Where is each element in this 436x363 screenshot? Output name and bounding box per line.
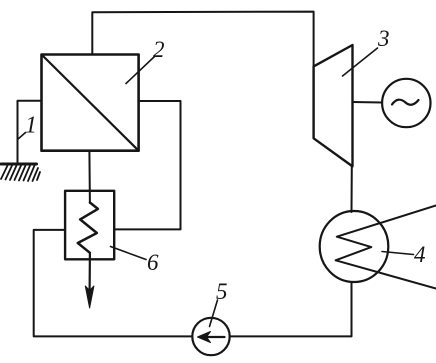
heater box 6 (65, 191, 114, 259)
svg-text:5: 5 (216, 279, 228, 304)
label 3 leader (343, 48, 378, 76)
turbine 3 (314, 45, 353, 166)
zigzag coil in 6 (78, 203, 98, 253)
wire: heater 6 left to bottom line, to pump (34, 230, 193, 337)
wire: square 2 left to support (18, 101, 42, 164)
wire: square 2 bottom into heater 6 (88, 151, 91, 203)
svg-text:6: 6 (147, 250, 159, 275)
generator circle (382, 79, 430, 127)
label 1 leader (18, 133, 26, 140)
diagonal of square 2 (43, 56, 138, 150)
svg-text:4: 4 (414, 242, 426, 267)
label 4 leader (382, 252, 414, 255)
svg-text:3: 3 (377, 26, 390, 51)
arrowhead (85, 286, 94, 308)
pump arrow (203, 336, 225, 338)
label 2 leader (126, 57, 155, 84)
ground hatching (1, 166, 40, 182)
pump 5 circle (192, 318, 229, 355)
wire: turbine 3 to generator (353, 101, 383, 104)
wire: turbine 3 to condenser 4 (351, 166, 353, 212)
reactor square 2 (42, 55, 139, 151)
cooling coil through 4 (336, 206, 436, 289)
svg-text:2: 2 (153, 37, 165, 62)
generator tilde (392, 100, 419, 105)
wire: square 2 top to turbine 3 (92, 12, 313, 67)
wire: square 2 right down to heater 6 (114, 101, 180, 229)
label 5 leader (210, 300, 218, 327)
condenser circle 4 (320, 211, 389, 282)
ground/support 1 bar (1, 163, 37, 166)
outlet arrow below 6 (88, 253, 91, 292)
svg-text:1: 1 (25, 113, 37, 139)
wire: pump to condenser 4 (230, 282, 352, 336)
label 6 leader (111, 247, 147, 260)
